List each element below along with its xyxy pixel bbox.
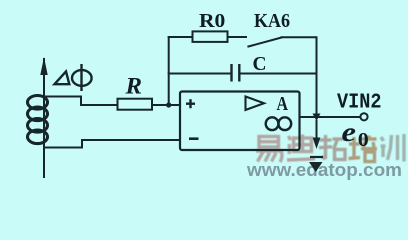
resistor R — [118, 99, 153, 110]
wire: left horizontal to R0 — [169, 36, 193, 38]
label phi (circle with bar) — [72, 64, 92, 91]
arrow up on flux line — [40, 57, 47, 75]
svg-text:R: R — [124, 74, 142, 99]
watermark row1: hanzi 易 — [256, 137, 283, 163]
e0 arrowhead — [313, 138, 321, 150]
coil L1 loop 1 — [28, 96, 48, 110]
svg-text:KA6: KA6 — [254, 10, 290, 32]
label delta (triangle) — [55, 72, 70, 85]
wire R0 to switch contact — [228, 36, 247, 38]
coil L1 loop 2 — [28, 107, 48, 121]
svg-text:0: 0 — [358, 129, 369, 151]
svg-text:e: e — [342, 117, 357, 147]
op-amp minus input sign — [189, 137, 199, 140]
wire switch to right vertical — [282, 37, 317, 117]
wire R to op-amp plus — [152, 104, 180, 106]
capacitor C plates — [232, 64, 240, 82]
junction dot at output node — [313, 114, 321, 122]
ground bar — [310, 156, 323, 158]
watermark row1: hanzi 拓 — [319, 135, 346, 160]
coil L1 loop 3 — [28, 119, 48, 133]
wire capacitor right — [240, 73, 317, 75]
watermark row1: hanzi 培 — [349, 136, 378, 162]
watermark row1: hanzi 训 — [381, 134, 405, 162]
svg-text:www.edatop.com: www.edatop.com — [246, 159, 402, 180]
op-amp triangle symbol — [246, 97, 265, 111]
resistor R0 — [193, 31, 228, 42]
svg-text:R0: R0 — [199, 10, 225, 32]
coil L1 loop 4 — [28, 130, 48, 144]
svg-text:C: C — [253, 53, 267, 75]
wire top from coil to R (step) — [44, 97, 118, 106]
op-amp U1 box — [180, 92, 300, 151]
wire capacitor left — [169, 73, 231, 75]
infinity symbol — [266, 117, 291, 130]
switch KA6 blade — [248, 38, 281, 47]
svg-text:VIN2: VIN2 — [337, 91, 382, 115]
e0 arrow shaft — [316, 121, 318, 140]
node: flux line (vertical core line) — [43, 59, 45, 177]
terminal VIN2 circle — [360, 113, 367, 120]
watermark row1: hanzi 迪 — [287, 135, 315, 161]
output wire — [300, 116, 361, 118]
junction dot at plus-input node — [166, 102, 171, 107]
ground triangle — [309, 162, 323, 172]
wire: feedback left vertical — [168, 37, 170, 105]
svg-text:A: A — [277, 93, 289, 115]
op-amp plus input sign — [186, 99, 195, 108]
wire bottom from coil to op-amp minus (step) — [44, 140, 180, 148]
